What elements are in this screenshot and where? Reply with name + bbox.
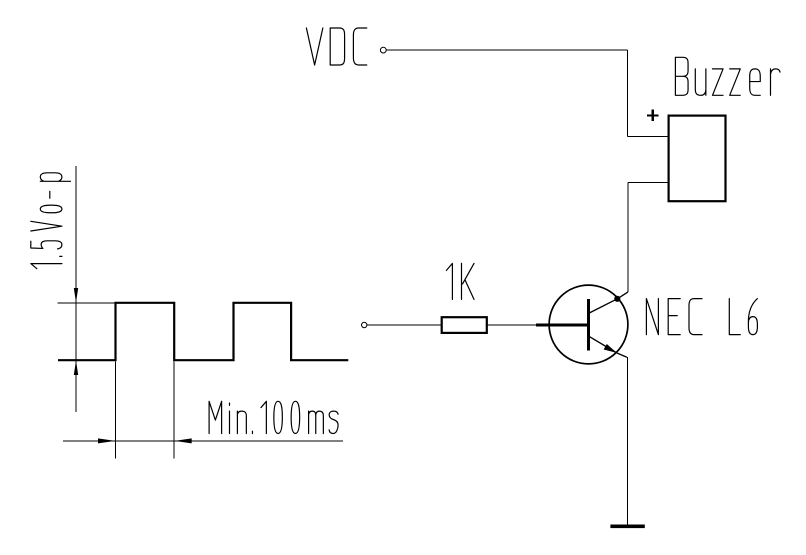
dimension arrow up [74, 360, 78, 375]
terminal VDC input [380, 47, 386, 53]
wire input to resistor [367, 324, 442, 326]
value label 1K [446, 263, 474, 299]
wire bend into collector junction [617, 292, 628, 299]
dimension extension line rise edge [115, 362, 117, 459]
dimension arrow down [74, 288, 78, 303]
terminal signal input [362, 322, 367, 327]
buzzer polarity + mark [647, 110, 659, 122]
dimension line vertical 1.5Vo-p [75, 166, 77, 412]
base lead [536, 324, 590, 327]
transistor Q1 NEC L6 [549, 285, 628, 364]
part label NEC L6 [646, 299, 757, 335]
net label VDC [306, 28, 366, 65]
waveform annotation pulse train [58, 303, 348, 360]
dimension arrow right [98, 438, 115, 443]
dimension line horizontal Min.100ms [63, 440, 343, 442]
resistor R1 1K [442, 317, 487, 333]
wire emitter bend [617, 353, 627, 357]
wire bend down to buzzer level [627, 50, 629, 136]
ground [610, 525, 644, 529]
component label Buzzer [675, 57, 780, 95]
dimension extension line fall edge [173, 362, 175, 459]
wire emitter to ground [626, 357, 628, 525]
wire to buzzer + pin [628, 135, 669, 137]
dimension extension line high level [58, 302, 116, 304]
dimension label 1.5Vo-p (rotated) [31, 173, 71, 269]
dimension arrow left [175, 438, 192, 443]
junction dot collector [614, 296, 620, 302]
wire VDC to bend [386, 49, 627, 51]
wire buzzer to collector [627, 182, 629, 292]
buzzer BZ1 [669, 116, 726, 202]
dimension label Min.100ms [209, 401, 338, 433]
wire buzzer - pin [628, 181, 669, 183]
wire resistor to base [487, 324, 536, 326]
